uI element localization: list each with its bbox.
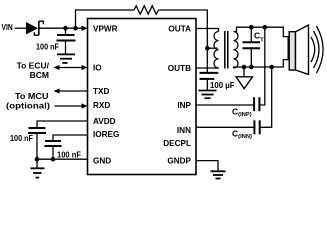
- svg-text:100 nF: 100 nF: [57, 150, 81, 160]
- svg-text:AVDD: AVDD: [93, 117, 116, 126]
- svg-text:RXD: RXD: [93, 101, 110, 110]
- svg-text:INN: INN: [177, 126, 191, 135]
- svg-text:100 nF: 100 nF: [36, 42, 59, 52]
- svg-text:IO: IO: [93, 63, 102, 72]
- svg-text:(optional): (optional): [6, 101, 50, 111]
- svg-text:GNDP: GNDP: [167, 156, 191, 165]
- svg-text:VIN: VIN: [2, 23, 14, 32]
- svg-text:BCM: BCM: [30, 70, 49, 80]
- svg-text:VPWR: VPWR: [93, 24, 118, 33]
- svg-text:100 nF: 100 nF: [10, 133, 33, 143]
- svg-text:DECPL: DECPL: [163, 139, 191, 148]
- svg-text:INP: INP: [177, 101, 191, 110]
- svg-text:OUTA: OUTA: [168, 24, 191, 33]
- svg-text:OUTB: OUTB: [168, 64, 191, 73]
- svg-text:TXD: TXD: [93, 87, 109, 96]
- svg-text:To ECU/: To ECU/: [17, 61, 50, 71]
- svg-text:IOREG: IOREG: [93, 130, 119, 139]
- svg-text:GND: GND: [93, 156, 111, 165]
- svg-text:100 µF: 100 µF: [210, 80, 235, 90]
